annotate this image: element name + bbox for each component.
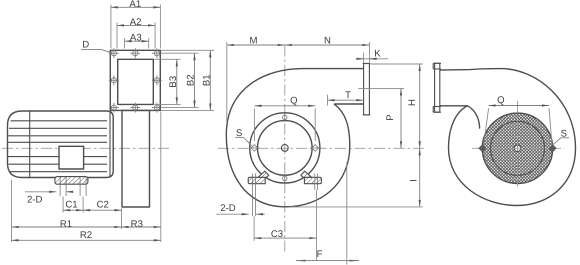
dim P top extension line: [358, 87, 404, 89]
crosshair vertical: [517, 101, 519, 187]
dim N: [285, 44, 370, 46]
scroll outline (right view): [440, 69, 576, 206]
foot right slot: [314, 174, 316, 191]
motor fin end seam: [109, 111, 111, 177]
dim I bottom extension line (scroll bottom tangent): [289, 206, 423, 208]
svg-text:C2: C2: [97, 199, 109, 210]
dim A1: [111, 6, 160, 8]
motor foot pad (hatched): [55, 177, 88, 185]
motor fin line 2: [9, 127, 107, 129]
dim A1 extension lines: [110, 5, 112, 49]
svg-text:2-D: 2-D: [220, 203, 236, 214]
svg-text:A2: A2: [130, 17, 142, 28]
dim B1: [209, 50, 211, 110]
svg-text:B1: B1: [201, 74, 212, 86]
svg-text:B3: B3: [168, 76, 179, 88]
motor fin line 5: [8, 156, 107, 158]
dim A2 extension lines: [116, 23, 118, 49]
label S (right) leader: [561, 137, 569, 139]
flange hole bottom-mid: [130, 103, 140, 113]
dim C3 extension lines: [253, 216, 255, 241]
inlet inner ring: [491, 121, 545, 175]
dim R2: [12, 239, 161, 241]
svg-text:Q: Q: [497, 95, 504, 106]
bolt lug left: [249, 145, 259, 152]
svg-text:D: D: [82, 39, 89, 50]
svg-text:S: S: [236, 128, 242, 139]
mounting foot right (hatched): [304, 177, 321, 183]
inlet bore circle: [258, 121, 313, 176]
dim B2 extension lines: [161, 52, 199, 54]
dim C1/C2 extension lines: [62, 197, 64, 213]
label S (middle) leader: [235, 136, 243, 138]
inlet screen (hatched disk): [482, 113, 552, 183]
side lug right (right view): [549, 144, 557, 152]
outlet flange bar (middle view): [364, 64, 370, 115]
svg-text:2-D: 2-D: [27, 194, 43, 205]
svg-text:A3: A3: [130, 33, 142, 44]
svg-text:B2: B2: [186, 74, 197, 86]
dim B3 extension lines: [155, 58, 181, 60]
svg-text:H: H: [407, 99, 418, 106]
dim K extension line: [363, 53, 365, 64]
flange hole bottom-right: [152, 103, 162, 113]
dim R3: [122, 226, 161, 228]
dim A2: [117, 24, 155, 26]
flange hole mid-right: [152, 75, 162, 85]
foot slot hole 2: [79, 177, 81, 196]
dim R1: [12, 226, 122, 228]
dim Q (right) slanted extension lines: [484, 108, 489, 145]
dim B2: [194, 53, 196, 107]
housing slab (scroll edge-on): [122, 110, 150, 207]
svg-text:F: F: [317, 249, 323, 260]
label 2-D leader (middle view): [216, 213, 249, 215]
flange hole mid-left: [109, 75, 119, 85]
svg-text:S: S: [561, 128, 567, 139]
label 2-D leader (left view): [25, 191, 56, 193]
svg-text:I: I: [409, 179, 420, 182]
outlet duct bottom wall: [335, 103, 364, 105]
svg-text:R2: R2: [80, 230, 92, 241]
shaft hub circle: [281, 145, 288, 152]
inlet flange circle: [250, 113, 320, 183]
dim C3: [254, 237, 316, 239]
outlet flange outer square: [110, 50, 160, 110]
svg-text:R1: R1: [60, 219, 72, 230]
motor fin line 1: [11, 120, 108, 122]
dim A3: [125, 40, 149, 42]
dim C2: [83, 209, 121, 211]
dim H: [419, 64, 421, 148]
dim F: [296, 260, 359, 262]
dim B1 extension lines: [161, 49, 214, 51]
dim R1/R2 extension lines: [11, 180, 13, 242]
flange hole top-left: [109, 48, 119, 58]
motor fin line 4: [8, 141, 107, 143]
dim I: [419, 148, 421, 207]
dim A3 extension lines: [124, 38, 126, 48]
dim Q (middle): [254, 105, 315, 107]
outlet flange bar (right view): [435, 63, 440, 112]
bolt hole bottom: [283, 174, 288, 183]
motor fin line 7: [10, 171, 108, 173]
svg-text:R3: R3: [131, 219, 143, 230]
motor fin line 3: [8, 135, 107, 137]
dim M: [227, 44, 285, 46]
flange hole bottom-left: [109, 103, 119, 113]
svg-text:K: K: [374, 49, 381, 60]
svg-text:C3: C3: [271, 229, 283, 240]
dim T tick: [327, 95, 329, 106]
svg-text:Q: Q: [290, 96, 297, 107]
horizontal centerline (middle view): [218, 147, 424, 149]
dim T: [328, 99, 364, 101]
crosshair horizontal: [472, 147, 565, 149]
flange hole top-mid: [130, 48, 140, 58]
bolt hole top: [283, 113, 288, 122]
dim N extension line (flange right): [369, 42, 371, 63]
svg-text:A1: A1: [129, 0, 141, 10]
flange hole top-right: [152, 48, 162, 58]
dim C1: [63, 209, 83, 211]
dim F extension line (scroll rightmost): [346, 162, 348, 265]
foot slot hole 1: [59, 177, 61, 196]
centerline (left view horizontal axis): [2, 147, 170, 149]
svg-text:C1: C1: [65, 199, 77, 210]
foot left slot: [252, 174, 254, 217]
dim H top extension line: [371, 63, 423, 65]
svg-text:M: M: [250, 35, 258, 46]
motor end-cap seam: [29, 111, 31, 177]
tongue curve (right view): [468, 106, 480, 128]
mounting foot left (hatched): [248, 177, 265, 183]
dim Q (right): [489, 105, 549, 107]
motor body: [8, 111, 114, 178]
svg-text:T: T: [345, 90, 351, 101]
svg-text:N: N: [324, 35, 331, 46]
label D leader: [81, 48, 101, 50]
dim M extension line (scroll leftmost): [226, 42, 228, 122]
dim K: [357, 58, 389, 60]
vertical centerline / M-N extension: [284, 46, 286, 253]
svg-text:P: P: [385, 114, 396, 120]
dim B3: [176, 59, 178, 104]
outlet flange inner square: [118, 59, 154, 104]
hub circle (right view): [514, 145, 520, 151]
bolt lug right: [310, 145, 320, 152]
side lug left (right view): [478, 144, 486, 152]
dim P: [400, 88, 402, 148]
volute scroll outline: [226, 69, 363, 207]
dim Q (middle) extension lines: [253, 109, 255, 142]
motor hub block: [59, 146, 84, 169]
motor fin line 6: [9, 163, 108, 165]
